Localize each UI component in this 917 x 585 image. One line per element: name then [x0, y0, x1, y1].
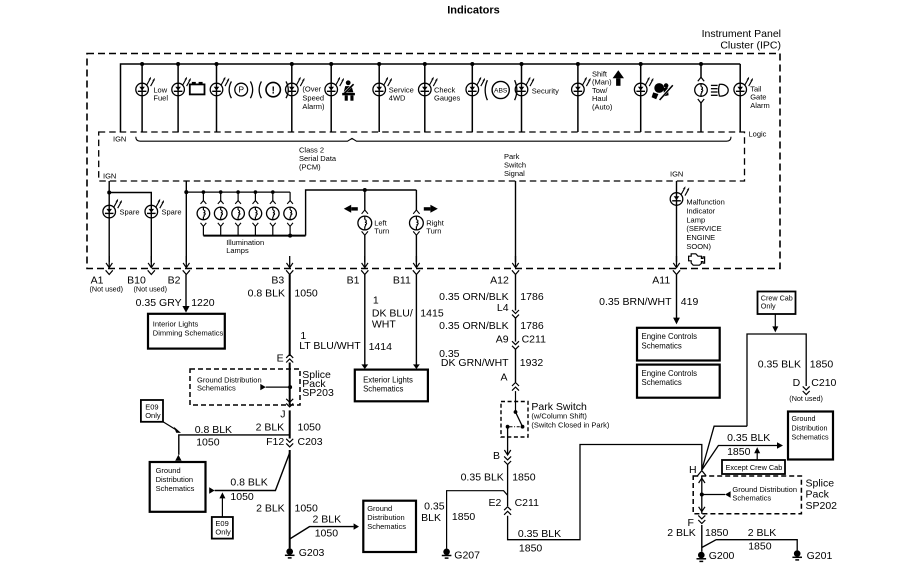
ABS symbol	[485, 80, 487, 100]
ground G200	[698, 552, 705, 559]
svg-text:1850: 1850	[748, 541, 772, 553]
svg-text:Schematics: Schematics	[367, 522, 406, 531]
wire 2 BLK 1050 to C203	[289, 410, 291, 438]
box Except Crew Cab	[722, 460, 785, 474]
battery icon	[190, 84, 205, 94]
svg-text:1786: 1786	[520, 320, 544, 332]
indicator lamp Security	[515, 83, 528, 96]
svg-text:G203: G203	[299, 547, 325, 559]
left turn bold arrow icon	[344, 205, 351, 213]
svg-text:Indicators: Indicators	[447, 5, 500, 17]
svg-text:Alarm: Alarm	[750, 101, 770, 110]
svg-text:4WD: 4WD	[389, 94, 406, 103]
brake (!) symbol	[259, 81, 261, 98]
wire 0.8 BLK 1050 horizontal	[179, 435, 290, 455]
svg-text:0.35 GRY: 0.35 GRY	[136, 297, 182, 309]
svg-text:Schematics: Schematics	[156, 484, 195, 493]
svg-text:B2: B2	[168, 275, 181, 287]
stub arrow right from box	[209, 487, 214, 493]
svg-text:Only: Only	[145, 411, 161, 420]
right turn lamp	[415, 190, 417, 210]
svg-text:Schematics: Schematics	[197, 384, 236, 393]
svg-text:1786: 1786	[520, 291, 544, 303]
svg-text:F12: F12	[266, 436, 284, 448]
svg-text:E2: E2	[489, 497, 502, 509]
splice stub arrow SP203	[260, 384, 266, 390]
svg-text:Turn: Turn	[374, 227, 389, 236]
wire 0.35 BLK 1850 below B	[507, 464, 509, 506]
indicator lamp Tail Gate Alarm	[734, 83, 747, 96]
svg-text:A11: A11	[652, 275, 670, 287]
svg-text:Distribution: Distribution	[367, 513, 405, 522]
wire crew cab 0.35 BLK 1850	[747, 334, 806, 426]
svg-text:G207: G207	[454, 550, 480, 562]
svg-text:1050: 1050	[230, 491, 254, 503]
svg-text:C211: C211	[515, 497, 539, 509]
wire top ignition bus	[121, 64, 741, 132]
junction on bus	[699, 62, 703, 66]
branch to G207	[447, 491, 508, 549]
terminal B1	[364, 256, 366, 267]
pointer arrow up from except crew cab	[756, 452, 758, 460]
wire drop for lamp abs	[471, 64, 473, 83]
wire 0.35 DK GRN/WHT 1932	[515, 349, 517, 382]
svg-text:Speed: Speed	[302, 93, 324, 102]
svg-text:IGN: IGN	[113, 134, 126, 143]
svg-text:ENGINE: ENGINE	[686, 233, 715, 242]
svg-text:C211: C211	[522, 333, 546, 345]
svg-text:BLK: BLK	[421, 512, 441, 524]
svg-text:0.8 BLK: 0.8 BLK	[195, 424, 232, 436]
splice stub arrow SP202	[702, 494, 725, 496]
box Ground Distribution Schematics (left)	[150, 462, 206, 512]
wire B11 1 DK BLU/WHT 1415	[415, 274, 417, 364]
park switch dashed box	[501, 402, 528, 438]
svg-text:G201: G201	[807, 550, 833, 562]
svg-text:L4: L4	[497, 302, 509, 314]
pointer arrow up from lower E09 box	[221, 497, 223, 517]
wire spare1 to A1	[108, 218, 110, 262]
svg-text:0.8 BLK: 0.8 BLK	[230, 477, 267, 489]
wire 2 BLK 1850 to G200	[701, 525, 703, 552]
box Interior Lights Dimming Schematics	[148, 314, 225, 349]
svg-text:Fuel: Fuel	[153, 94, 168, 103]
svg-text:(PCM): (PCM)	[299, 162, 321, 171]
wire 0.35 BLK 1850 to ground distribution (except crew cab)	[702, 446, 777, 471]
pointer arrow from crew cab box	[774, 314, 776, 327]
wire park switch output	[507, 427, 509, 455]
svg-text:SP202: SP202	[806, 500, 838, 512]
svg-text:Alarm): Alarm)	[302, 102, 325, 111]
svg-text:1850: 1850	[512, 471, 536, 483]
svg-text:1414: 1414	[369, 341, 393, 353]
malfunction indicator lamp	[676, 181, 678, 193]
illumination lamp 4	[254, 190, 258, 194]
svg-text:Pack: Pack	[806, 488, 830, 500]
wire drop for lamp lowfuel	[141, 64, 143, 83]
wire drop for lamp tail	[739, 64, 741, 83]
svg-text:Logic: Logic	[749, 129, 767, 138]
splice pack SP202 dashed box	[693, 476, 801, 514]
svg-text:Only: Only	[761, 302, 776, 311]
svg-text:Turn: Turn	[426, 227, 441, 236]
wire drop for lamp sec	[521, 64, 523, 83]
svg-text:419: 419	[681, 296, 699, 308]
illumination bottom bus	[203, 235, 305, 237]
svg-text:Engine Controls: Engine Controls	[642, 369, 698, 378]
svg-text:(w/Column Shift): (w/Column Shift)	[531, 412, 587, 421]
svg-text:1415: 1415	[420, 308, 444, 320]
junction on bus	[176, 62, 180, 66]
svg-text:C203: C203	[298, 436, 323, 448]
svg-text:Dimming Schematics: Dimming Schematics	[153, 328, 224, 337]
svg-text:1850: 1850	[705, 527, 729, 539]
junction on bus	[520, 62, 524, 66]
terminal B10	[150, 256, 152, 267]
wire drop for lamp ovsp	[291, 64, 293, 83]
svg-text:(Not used): (Not used)	[789, 394, 823, 403]
svg-text:Malfunction: Malfunction	[686, 198, 724, 207]
engine icon	[689, 254, 705, 265]
wire drop for lamp s4wd	[378, 64, 380, 83]
wire B3 0.8 BLK 1050	[289, 274, 291, 356]
indicator lamp ABS	[466, 83, 479, 96]
IPC logic inner dashed box	[99, 132, 745, 181]
indicator lamp high beam	[698, 77, 704, 81]
ground G201	[794, 550, 801, 557]
junction on bus	[140, 62, 144, 66]
terminal A1	[108, 256, 110, 267]
illumination lamp 2	[219, 190, 223, 194]
splice pack SP203 dashed box	[190, 369, 300, 405]
class 2 serial data brace	[136, 137, 731, 141]
svg-text:1050: 1050	[298, 422, 322, 434]
seat belt icon	[346, 80, 351, 85]
svg-text:A9: A9	[496, 333, 509, 345]
wire through SP202	[701, 476, 703, 514]
svg-text:1050: 1050	[315, 527, 339, 539]
junction on bus	[576, 62, 580, 66]
svg-text:(Auto): (Auto)	[592, 102, 613, 111]
wire crew cab into H	[702, 426, 747, 470]
svg-text:Security: Security	[532, 87, 559, 96]
svg-text:1850: 1850	[519, 543, 543, 555]
svg-text:1220: 1220	[191, 297, 215, 309]
illumination lamp 6	[289, 192, 291, 201]
junction on bus	[377, 62, 381, 66]
svg-text:0.35: 0.35	[424, 501, 445, 513]
svg-text:WHT: WHT	[372, 319, 396, 331]
box Ground Distribution Schematics (right)	[788, 412, 833, 460]
svg-text:Except Crew Cab: Except Crew Cab	[726, 463, 783, 472]
svg-text:0.35 BLK: 0.35 BLK	[758, 358, 801, 370]
terminal B11	[415, 256, 417, 267]
svg-text:Ground: Ground	[367, 504, 392, 513]
indicator lamp airbag	[634, 83, 647, 96]
wire B1 1 LT BLU/WHT 1414	[364, 274, 366, 364]
ground G203	[286, 548, 293, 555]
svg-text:B3: B3	[271, 275, 284, 287]
svg-text:2 BLK: 2 BLK	[313, 513, 342, 525]
junction on bus	[470, 62, 474, 66]
pointer arrow from E09 box	[163, 422, 177, 431]
wire 2 BLK 1050 to G203	[289, 450, 291, 548]
wire park switch signal A12	[515, 181, 517, 262]
junction on bus	[639, 62, 643, 66]
svg-text:SOON): SOON)	[686, 242, 711, 251]
svg-text:(Not used): (Not used)	[90, 284, 124, 293]
svg-text:0.35 ORN/BLK: 0.35 ORN/BLK	[439, 320, 508, 332]
IPC outer dashed box	[87, 54, 780, 269]
svg-text:0.35 BLK: 0.35 BLK	[461, 471, 504, 483]
indicator lamp seat belt	[325, 83, 338, 96]
svg-text:1850: 1850	[452, 511, 476, 523]
shift bold up arrow icon	[613, 70, 624, 78]
indicator lamp Check Gauges	[419, 83, 432, 96]
svg-text:Spare: Spare	[162, 208, 182, 217]
svg-text:J: J	[280, 408, 285, 420]
svg-text:Schematics: Schematics	[642, 341, 682, 350]
svg-text:B1: B1	[347, 275, 360, 287]
spare lamp 1	[103, 205, 116, 218]
svg-text:Cluster (IPC): Cluster (IPC)	[720, 39, 781, 51]
indicator lamp Low Fuel	[136, 83, 149, 96]
svg-text:0.35 BLK: 0.35 BLK	[727, 432, 770, 444]
svg-text:(Switch Closed in Park): (Switch Closed in Park)	[531, 420, 609, 429]
box Engine Controls Schematics (1)	[637, 328, 720, 361]
svg-text:Indicator: Indicator	[686, 206, 715, 215]
svg-text:1050: 1050	[294, 288, 318, 300]
indicator lamp battery (charge)	[172, 83, 185, 96]
svg-text:B11: B11	[393, 275, 411, 287]
svg-text:Gauges: Gauges	[434, 94, 461, 103]
box Ground Distribution Schematics (center)	[363, 501, 416, 552]
svg-text:Schematics: Schematics	[732, 494, 771, 503]
svg-text:A: A	[500, 372, 507, 384]
headlamp icon	[711, 84, 718, 86]
branch 2 BLK 1850 to G201	[702, 540, 797, 551]
svg-text:B: B	[493, 450, 500, 462]
svg-text:C210: C210	[811, 377, 836, 389]
illumination lamp 1	[202, 190, 206, 194]
wire IGN feed to spare lamps	[109, 181, 151, 205]
svg-text:(Over: (Over	[302, 84, 321, 93]
terminal A11	[676, 256, 678, 267]
illumination top bus	[186, 191, 290, 193]
svg-text:0.35 BRN/WHT: 0.35 BRN/WHT	[599, 296, 672, 308]
svg-text:H: H	[689, 464, 697, 476]
wire drop for lamp beam	[700, 64, 702, 77]
wire 0.8 BLK 1050 from box joining main	[215, 453, 290, 491]
svg-text:1932: 1932	[520, 357, 544, 369]
svg-text:(Not used): (Not used)	[134, 284, 168, 293]
svg-text:Ground: Ground	[792, 414, 816, 423]
illumination lamp 3	[236, 190, 240, 194]
wire drop for lamp batt	[177, 64, 179, 83]
junction on bus	[329, 62, 333, 66]
left turn lamp	[364, 190, 366, 210]
airbag icon	[654, 83, 664, 93]
svg-text:ABS: ABS	[494, 87, 508, 94]
terminal B2	[185, 256, 187, 267]
park switch contacts	[514, 410, 518, 414]
svg-text:IGN: IGN	[670, 170, 683, 179]
box E09 Only (upper)	[141, 400, 163, 422]
indicator lamp Service 4WD	[373, 83, 386, 96]
box E09 Only (lower)	[212, 517, 233, 539]
box Exterior Lights Schematics	[355, 370, 428, 402]
svg-text:Engine Controls: Engine Controls	[642, 332, 698, 341]
box Crew Cab Only	[758, 292, 796, 315]
wire drop for lamp brake	[216, 64, 218, 83]
illumination lamp 5	[271, 190, 275, 194]
svg-text:2 BLK: 2 BLK	[256, 422, 285, 434]
svg-text:Schematics: Schematics	[792, 433, 830, 442]
svg-text:Interior Lights: Interior Lights	[153, 319, 199, 328]
box Engine Controls Schematics (2)	[637, 365, 720, 398]
svg-text:Only: Only	[215, 527, 231, 536]
svg-text:0.35 BLK: 0.35 BLK	[518, 528, 561, 540]
junction on bus	[290, 62, 294, 66]
svg-text:2 BLK: 2 BLK	[748, 527, 777, 539]
svg-text:1850: 1850	[727, 446, 751, 458]
svg-text:Signal: Signal	[504, 169, 525, 178]
svg-text:D: D	[793, 377, 801, 389]
junction on bus	[215, 62, 219, 66]
svg-text:Ground Distribution: Ground Distribution	[732, 485, 797, 494]
svg-text:Exterior Lights: Exterior Lights	[363, 375, 413, 384]
indicator lamp Shift/Tow-Haul	[572, 83, 585, 96]
terminal B3	[289, 256, 291, 267]
wire drop for lamp bag	[640, 64, 642, 83]
svg-text:1850: 1850	[810, 358, 834, 370]
svg-text:Instrument Panel: Instrument Panel	[702, 28, 781, 40]
svg-text:SP203: SP203	[302, 387, 334, 399]
wire drop for lamp chk	[424, 64, 426, 83]
indicator lamp Over Speed Alarm	[286, 83, 299, 96]
branch 2 BLK 1050 to ground distribution box	[290, 527, 354, 539]
junction on bus	[423, 62, 427, 66]
right turn bold arrow icon	[430, 205, 437, 213]
wire drop for lamp belt	[330, 64, 332, 83]
svg-text:1050: 1050	[196, 437, 220, 449]
svg-text:(SERVICE: (SERVICE	[686, 224, 721, 233]
stub arrow into wire from ground distribution box	[175, 455, 181, 461]
svg-text:DK GRN/WHT: DK GRN/WHT	[441, 357, 509, 369]
indicator lamp brake warning	[210, 83, 223, 96]
wire 0.35 BRN/WHT 419	[676, 274, 678, 318]
svg-text:!: !	[271, 84, 275, 96]
svg-text:Schematics: Schematics	[363, 385, 403, 394]
svg-text:Distribution: Distribution	[156, 475, 194, 484]
wire 0.35 GRY 1220	[185, 274, 187, 306]
svg-text:LT BLU/WHT: LT BLU/WHT	[299, 340, 361, 352]
wire 0.35 ORN/BLK 1786 (upper)	[515, 274, 517, 310]
wire spare2 to B10	[150, 218, 152, 262]
svg-text:1: 1	[373, 295, 379, 307]
svg-text:0.8 BLK: 0.8 BLK	[248, 288, 285, 300]
terminal A12	[515, 256, 517, 267]
svg-text:Ground: Ground	[156, 466, 181, 475]
svg-text:G200: G200	[709, 550, 735, 562]
svg-text:P: P	[238, 85, 244, 95]
svg-text:A12: A12	[490, 275, 509, 287]
svg-text:Schematics: Schematics	[642, 378, 682, 387]
svg-text:Distribution: Distribution	[792, 423, 828, 432]
svg-text:2 BLK: 2 BLK	[256, 503, 285, 515]
spare lamp 2	[145, 205, 158, 218]
wire drop for lamp shift	[577, 64, 579, 83]
svg-text:Lamps: Lamps	[226, 246, 249, 255]
wire 0.35 ORN/BLK 1786 (lower)	[515, 318, 517, 342]
wire B2 / illumination feed	[185, 181, 187, 262]
svg-text:Spare: Spare	[120, 208, 140, 217]
ground G207	[443, 549, 450, 556]
svg-text:Lamp: Lamp	[686, 215, 705, 224]
wire 0.35 BLK 1850 loop to H	[508, 445, 702, 540]
svg-text:2 BLK: 2 BLK	[667, 527, 696, 539]
brake (P) symbol	[229, 81, 231, 98]
svg-text:IGN: IGN	[103, 172, 116, 181]
wire riser to turn bus	[306, 190, 417, 236]
svg-text:E: E	[277, 352, 284, 364]
